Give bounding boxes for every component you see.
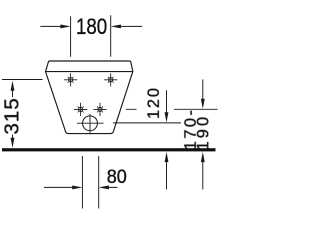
svg-text:80: 80: [107, 165, 127, 187]
svg-text:315: 315: [0, 97, 23, 134]
svg-text:190: 190: [194, 114, 212, 151]
svg-text:180: 180: [76, 15, 107, 40]
svg-text:120: 120: [145, 86, 163, 119]
